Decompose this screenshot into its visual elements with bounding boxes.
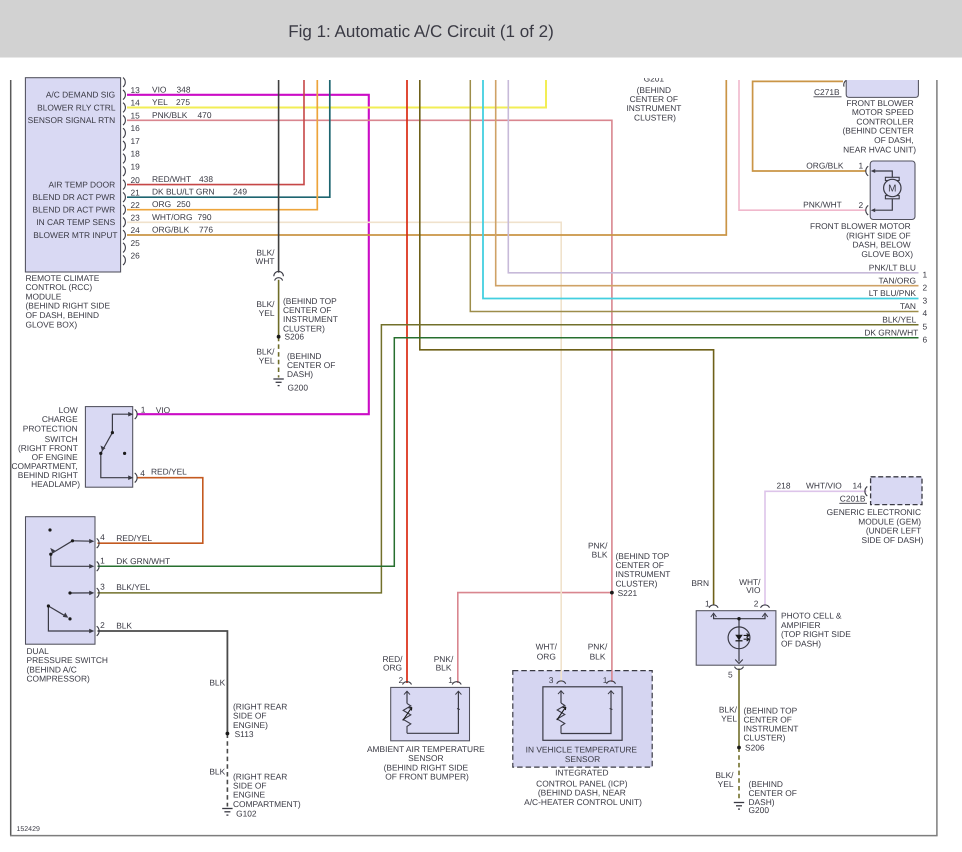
photo cell internal bus [714, 615, 765, 662]
svg-text:C201B: C201B [840, 494, 866, 504]
svg-text:PNK/WHT: PNK/WHT [803, 199, 842, 209]
svg-text:S113: S113 [235, 729, 254, 739]
svg-text:G102: G102 [236, 808, 257, 818]
RCC module box [25, 78, 120, 272]
wire TAN/ORG : from top edge down x495.7, right at y285.7 to pin2 [496, 80, 919, 286]
wire YEL 275 : RCC pin14 right, up at x546 to top edge [127, 80, 546, 108]
svg-text:S221: S221 [618, 588, 638, 598]
svg-text:Fig 1: Automatic A/C Circuit (: Fig 1: Automatic A/C Circuit (1 of 2) [288, 22, 553, 41]
svg-text:BRN: BRN [691, 578, 709, 588]
wire PNK/BLK branch : S221 left then down to ambient sensor pin1 [458, 593, 612, 683]
photo cell and amplifier box [696, 611, 776, 666]
ICP pin arcs [557, 681, 616, 684]
svg-text:S206: S206 [745, 743, 765, 753]
wire WHT/ORG stub inside ICP [560, 671, 562, 682]
ICP internal: pin3 arrow + thermistor [558, 691, 564, 694]
wire DK BLU/LT GRN 249 : RCC pin21 right, up at x329.8 [127, 80, 330, 197]
diagram frame bottom border [10, 835, 938, 837]
wire RED/YEL : low charge pin4 right, down x202.8, left to dual pressure pin4 [98, 478, 203, 544]
photo cell pin5 down arrow [735, 660, 743, 664]
wire DK GRN/WHT : dual pressure pin1 right, up at x394.3, right at y337.8 to pin6 [98, 338, 919, 567]
wire VIO 348 : RCC pin13 right, down at x368.8, left to low charge pin1 [127, 95, 369, 414]
splice S206 right [737, 746, 741, 750]
inline connector on BLK/WHT wire [274, 271, 284, 280]
wire WHT/ORG 790 : RCC pin23 right, down at x561.2 to ICP pin3 [127, 222, 561, 682]
wire WHT/VIO 218 : GEM pin14 left, down x765 to photo cell pin2 [765, 491, 867, 605]
svg-text:M: M [888, 184, 896, 195]
wire BLK/YEL dashed : S206 to ground G200 right side [738, 748, 740, 802]
wire BLK dashed : S113 to ground G102 [226, 734, 228, 807]
GEM pin arc [865, 487, 867, 497]
ICP dashed outer box [513, 671, 652, 768]
ambient air temperature sensor box [391, 687, 470, 740]
thermistor zigzag ICP [557, 703, 565, 734]
svg-text:5: 5 [728, 669, 733, 679]
GEM module dashed box [871, 477, 922, 505]
svg-text:ORG/BLK: ORG/BLK [806, 161, 844, 171]
low charge switch internal contacts [101, 414, 131, 478]
wire TAN : from top edge down x470.3, right at y311.5 to right margin pin4 [470, 80, 918, 312]
svg-text:BLK: BLK [209, 677, 225, 687]
svg-text:RED/ORG: RED/ORG [382, 654, 403, 672]
svg-text:PNK/BLK: PNK/BLK [588, 642, 608, 662]
svg-text:WHT/ORG: WHT/ORG [536, 642, 558, 662]
dual pressure switch box [26, 517, 96, 645]
wire BLK : dual pressure pin2 right, down x227.4 to splice S113 [98, 631, 228, 734]
ground G102 [222, 809, 232, 816]
ICP internal bottom bus to pin1 [561, 691, 611, 734]
svg-text:BLK/YEL: BLK/YEL [719, 705, 738, 724]
ground G200 right [734, 803, 744, 810]
header bar [0, 0, 962, 58]
splice S206 left [277, 335, 281, 339]
splice S113 [226, 732, 230, 736]
svg-text:BLK/YEL: BLK/YEL [256, 347, 275, 366]
photo cell pin5 arc [735, 667, 744, 670]
wire ORG/BLK : C271B connector left and down to blower motor pin1 [753, 81, 866, 171]
svg-text:BLK/WHT: BLK/WHT [255, 247, 275, 266]
wire BLK/YEL : below inline connector to splice S206 [278, 280, 280, 337]
svg-text:2: 2 [859, 200, 864, 210]
svg-text:BLK/YEL: BLK/YEL [715, 770, 734, 789]
low charge protection switch box [85, 407, 132, 488]
diagram frame left border [10, 80, 12, 836]
wire BLK/WHT : vertical from top edge down to inline connector [278, 80, 280, 273]
C271B pin arc [844, 81, 846, 87]
splice S221 [610, 591, 614, 595]
ambient internal bottom bus to pin1 [407, 691, 458, 733]
wire BRN : from top edge down x419.8, right at y349.8, down x713.6 to photo cell pin1 [420, 80, 714, 605]
svg-text:PNK/BLK: PNK/BLK [434, 654, 454, 672]
svg-text:G200: G200 [288, 382, 309, 392]
wire PNK/BLK 470 : RCC pin15 right, down at x611.9 through S221 to ICP pin1 [127, 120, 612, 682]
wire ORG 250 : RCC pin22 right, up at x317.3 [127, 80, 317, 210]
dual pressure pin arcs [97, 538, 99, 635]
connector C271B partial box at top edge [846, 80, 918, 97]
wire RED/ORG : from top edge down to ambient sensor pin2 [406, 80, 408, 683]
wire PNK/LT BLU : from top edge down x508.3, right at y272.8 to pin1 [508, 80, 918, 273]
ambient pin arcs [403, 682, 462, 685]
RCC pin arcs 13-26 [123, 78, 125, 265]
svg-text:G200: G200 [749, 805, 770, 815]
wire PNK/BLK stub inside ICP [611, 671, 613, 682]
motor internal wiring [873, 171, 893, 210]
photo cell pin arcs [709, 605, 769, 608]
ambient internal: pin2 arrow + thermistor [404, 691, 410, 694]
in vehicle temperature sensor inner box [543, 687, 622, 741]
wire LT BLU/PNK : from top edge down x483, right at y298.5 to pin3 [483, 80, 919, 299]
dual pressure internal contacts lower [48, 593, 91, 631]
wire PNK/WHT : from top edge down x739, right at y210.2 to motor pin2 [739, 80, 866, 210]
motor symbol M [885, 177, 899, 180]
svg-text:FRONT BLOWER MOTOR SPEED CONTR: FRONT BLOWER MOTOR SPEED CONTROLLER (BEH… [842, 98, 916, 155]
front blower motor box [870, 161, 915, 220]
dual pressure internal contacts upper [51, 541, 92, 567]
photodiode circle [728, 627, 750, 649]
thermistor zigzag ambient [403, 703, 411, 733]
low charge pin arcs [135, 409, 137, 482]
svg-text:152429: 152429 [17, 826, 40, 833]
svg-text:PNK/BLK: PNK/BLK [588, 541, 608, 560]
svg-text:BLK: BLK [209, 766, 225, 776]
wire BLK/YEL : dual pressure pin3 right, up at x381.4, right at y324.8 to pin5 [98, 325, 919, 593]
ground G200 left [273, 379, 283, 386]
wire RED/WHT 438 : RCC pin20 right, up at x304 to top edge [127, 80, 304, 185]
wire BLK/YEL : photo cell pin5 down to splice S206 [738, 669, 740, 748]
svg-text:BLK/YEL: BLK/YEL [256, 299, 275, 318]
svg-text:C271B: C271B [814, 87, 840, 97]
wire ORG/BLK 776 : RCC pin24 right, up at x726.3 to top edge [127, 80, 726, 235]
diagram frame right border [936, 80, 938, 836]
svg-text:S206: S206 [285, 332, 305, 342]
motor pin arcs [866, 166, 868, 215]
wire BLK/YEL dashed : S206 to ground G200 [278, 337, 280, 378]
svg-text:1: 1 [859, 161, 864, 171]
